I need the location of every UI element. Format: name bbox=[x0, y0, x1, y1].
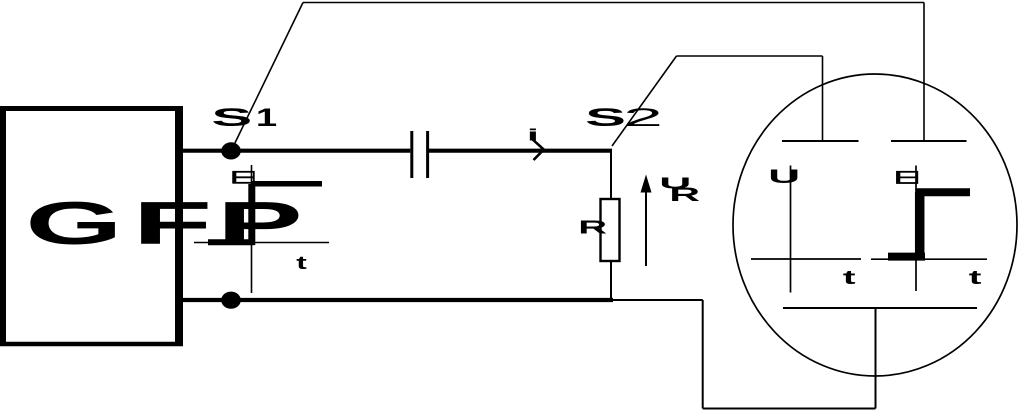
wire up into oscilloscope bottom electrode bbox=[875, 308, 877, 409]
input E graph: label E (drawn glyph) bbox=[232, 171, 254, 183]
svg-text:S: S bbox=[585, 104, 626, 132]
svg-text:2: 2 bbox=[623, 104, 663, 132]
scope E graph: step rising edge bbox=[915, 192, 925, 260]
input E graph: vertical axis bbox=[251, 165, 253, 293]
top wire from capacitor to node S2 bbox=[429, 149, 612, 153]
source box (GFP generator) left border bbox=[0, 106, 6, 346]
scope E graph: step low level bbox=[888, 253, 925, 261]
capacitor C right plate bbox=[426, 131, 429, 178]
svg-text:R: R bbox=[578, 217, 607, 237]
svg-text:S: S bbox=[211, 104, 252, 132]
switch S2 diagonal blade wire bbox=[612, 56, 677, 146]
scope E graph: label E (drawn glyph) bbox=[896, 171, 917, 183]
bottom horizontal wire to oscilloscope bbox=[703, 408, 876, 410]
scope U graph: horizontal t axis bbox=[751, 258, 861, 260]
resistor R body bbox=[601, 199, 620, 261]
scope E graph: step high level bbox=[916, 188, 970, 196]
input E graph: step rising edge bbox=[248, 184, 255, 245]
svg-text:P: P bbox=[217, 190, 303, 257]
capacitor C left plate bbox=[410, 131, 413, 178]
resistor top lead bbox=[610, 151, 612, 199]
vertical wire down to right deflection plate bbox=[923, 3, 925, 142]
source box top border bbox=[0, 106, 183, 111]
wire down to left deflection plate bbox=[822, 56, 824, 141]
right deflection plate bbox=[891, 140, 967, 142]
input E graph: horizontal t axis bbox=[194, 242, 329, 244]
input E graph: step low level bbox=[208, 239, 255, 245]
top interconnect wire to oscilloscope bbox=[303, 2, 924, 4]
svg-text:i: i bbox=[527, 126, 539, 145]
scope E graph: horizontal t axis bbox=[871, 258, 987, 260]
resistor bottom lead bbox=[610, 261, 612, 300]
bottom electrode bar bbox=[783, 307, 977, 309]
voltage arrow U_R shaft bbox=[645, 190, 647, 266]
svg-text:U: U bbox=[768, 166, 800, 188]
svg-text:1: 1 bbox=[256, 104, 277, 132]
bottom thin wire to oscilloscope bbox=[613, 299, 703, 301]
wire down from bottom node bbox=[702, 300, 704, 409]
source box right border bbox=[175, 106, 183, 346]
svg-text:G: G bbox=[25, 189, 122, 257]
top wire from box to capacitor bbox=[179, 149, 410, 153]
svg-text:t: t bbox=[296, 253, 307, 273]
input E graph: step high level bbox=[251, 181, 322, 187]
current arrowhead chevron bbox=[533, 140, 544, 160]
bottom terminal node dot bbox=[221, 292, 241, 309]
svg-text:R: R bbox=[669, 184, 700, 206]
scope U graph: vertical axis bbox=[790, 166, 792, 293]
switch S1 diagonal blade wire bbox=[233, 3, 303, 148]
bottom wire from box (thick) bbox=[179, 298, 613, 302]
svg-text:t: t bbox=[843, 267, 856, 288]
terminal node dot S1 bbox=[221, 142, 241, 159]
source box bottom border bbox=[0, 342, 183, 347]
svg-text:t: t bbox=[969, 267, 982, 288]
voltage arrow U_R head bbox=[641, 175, 652, 193]
left deflection plate bbox=[782, 140, 859, 142]
svg-text:F: F bbox=[132, 189, 212, 257]
wire from S2 blade to left deflection plate (horizontal) bbox=[677, 55, 823, 57]
scope E graph: vertical axis bbox=[915, 166, 917, 292]
oscilloscope screen ellipse bbox=[733, 74, 1017, 376]
